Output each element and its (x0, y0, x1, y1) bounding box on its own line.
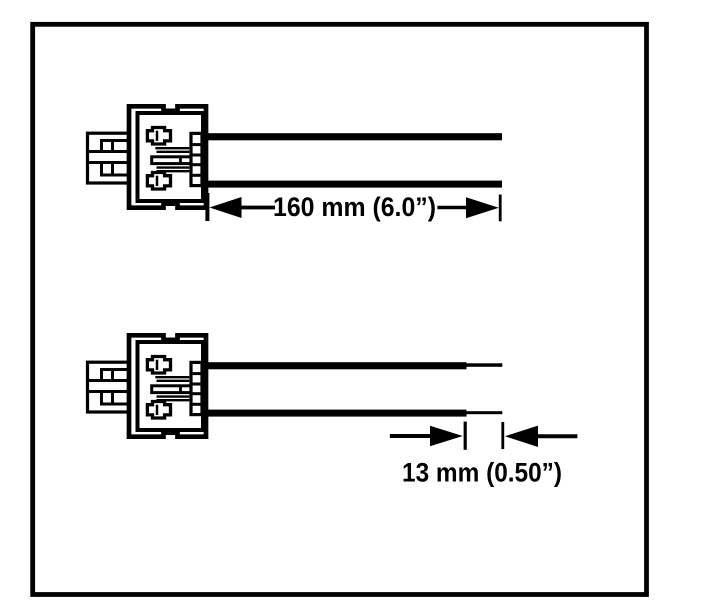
dimension 13mm: left tick (464, 422, 467, 450)
dimension 160mm: left tick (205, 193, 209, 221)
wire 2 (top figure, lower) (202, 181, 502, 188)
wire 3 insulation (bottom figure, upper) (202, 362, 467, 369)
wire 1 (top figure, upper) (202, 133, 502, 140)
dimension 160mm: left arrowhead (210, 197, 242, 218)
connector (top figure) (86, 106, 206, 207)
dimension 13mm: right shaft (536, 434, 577, 438)
dimension 160mm: right tick (499, 195, 502, 222)
wire 4 insulation (bottom figure, lower) (202, 410, 467, 417)
dimension 160mm: right shaft (437, 206, 467, 209)
wire 3 bare conductor (466, 363, 502, 367)
dimension 160mm: right arrowhead (466, 197, 499, 218)
dimension 13mm: left shaft (390, 434, 432, 438)
dimension 13mm: left arrowhead (430, 426, 463, 447)
dimension 13mm: right tick (501, 422, 504, 449)
svg-text:13 mm (0.50”): 13 mm (0.50”) (402, 458, 562, 488)
dimension 160mm: left shaft (240, 206, 275, 210)
dimension 13mm: right arrowhead (505, 426, 538, 447)
svg-text:160 mm (6.0”): 160 mm (6.0”) (273, 192, 436, 222)
connector (bottom figure) (86, 335, 206, 436)
wire 4 bare conductor (466, 411, 502, 414)
